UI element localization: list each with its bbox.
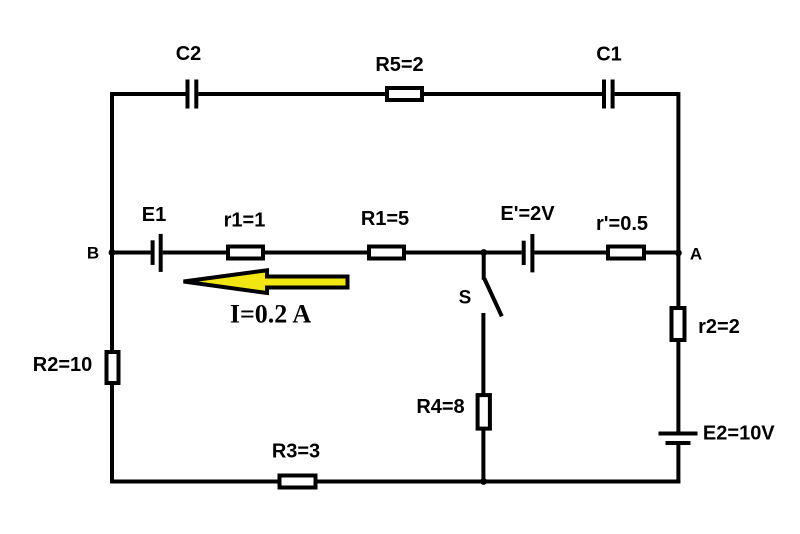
wire right vertical lower	[676, 443, 680, 483]
resistor R1 value R1=5	[361, 208, 409, 259]
resistor R2 value R2=10	[33, 352, 119, 383]
battery E2 value E2=10V	[659, 423, 776, 445]
wire top-left horizontal segment	[110, 92, 186, 96]
svg-text:r2=2: r2=2	[698, 316, 740, 338]
current arrow I=0.2 A	[184, 270, 348, 328]
resistor R4 value R4=8	[416, 395, 490, 429]
svg-text:r1=1: r1=1	[224, 210, 266, 232]
svg-text:E2=10V: E2=10V	[703, 423, 775, 445]
svg-text:r'=0.5: r'=0.5	[596, 213, 648, 235]
svg-text:E1: E1	[142, 204, 166, 226]
wire middle horizontal right segment	[534, 251, 678, 255]
resistor r1 value r1=1	[224, 210, 266, 259]
svg-text:B: B	[87, 244, 99, 263]
wire top middle segment	[198, 92, 602, 96]
svg-text:R4=8: R4=8	[416, 396, 464, 418]
node A	[675, 245, 702, 264]
wire middle horizontal center segment	[163, 251, 522, 255]
battery E' value E'=2V	[500, 203, 555, 272]
node B	[87, 244, 116, 263]
svg-text:A: A	[690, 245, 702, 264]
wire right vertical upper	[676, 92, 680, 433]
resistor r2 value r2=2	[672, 308, 740, 340]
wire bottom horizontal	[110, 480, 680, 484]
svg-text:C1: C1	[596, 44, 622, 66]
svg-text:R5=2: R5=2	[375, 54, 423, 76]
svg-text:C2: C2	[176, 43, 202, 65]
node junction switch-top	[480, 249, 487, 256]
wire left vertical	[110, 92, 114, 483]
svg-text:S: S	[459, 288, 472, 309]
battery E1	[142, 204, 166, 272]
svg-text:E'=2V: E'=2V	[500, 203, 555, 225]
wire middle horizontal left segment	[112, 251, 151, 255]
capacitor C2	[176, 43, 202, 109]
resistor R3 value R3=3	[272, 441, 320, 488]
resistor R5 value R5=2	[375, 54, 423, 100]
switch S	[459, 253, 502, 317]
wire top-right horizontal segment	[615, 92, 679, 96]
capacitor C1	[596, 44, 622, 109]
resistor r' value r'=0.5	[596, 213, 648, 259]
wire switch-branch vertical lower	[481, 313, 485, 482]
node junction bottom	[480, 478, 487, 485]
svg-text:R3=3: R3=3	[272, 441, 320, 463]
svg-text:R2=10: R2=10	[33, 354, 93, 376]
svg-text:I=0.2 A: I=0.2 A	[230, 300, 311, 329]
svg-text:R1=5: R1=5	[361, 208, 409, 230]
